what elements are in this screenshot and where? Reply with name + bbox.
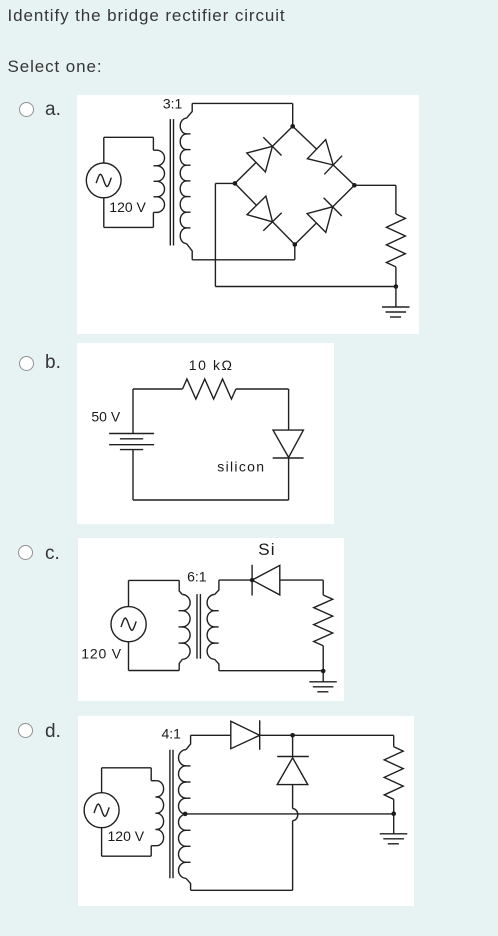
- svg-text:120 V: 120 V: [109, 199, 146, 215]
- svg-text:silicon: silicon: [217, 459, 265, 475]
- svg-text:120 V: 120 V: [81, 646, 122, 662]
- svg-text:50 V: 50 V: [91, 409, 120, 425]
- svg-text:3:1: 3:1: [163, 96, 183, 112]
- svg-text:120 V: 120 V: [108, 828, 145, 844]
- svg-text:6:1: 6:1: [187, 569, 207, 585]
- svg-text:Si: Si: [258, 540, 276, 559]
- svg-text:10 kΩ: 10 kΩ: [189, 357, 234, 373]
- svg-text:4:1: 4:1: [161, 726, 181, 742]
